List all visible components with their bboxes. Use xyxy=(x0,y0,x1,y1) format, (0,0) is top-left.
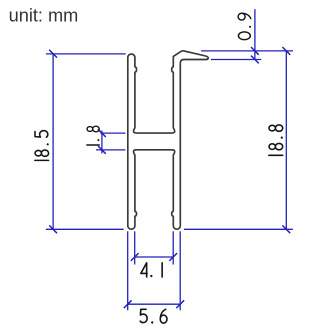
dimension 18.5 extension line top xyxy=(46,53,126,55)
dimension 0.9 dimension line xyxy=(254,9,256,59)
dimension 0.9 lower extension line xyxy=(211,59,261,61)
dim text 18.5 xyxy=(35,159,49,161)
tick 18.5 bottom xyxy=(49,225,57,233)
dimension 1.8 upper extension line xyxy=(100,132,125,134)
dim text 4.1 xyxy=(141,263,147,277)
shared bottom extension line right part (18.8) xyxy=(184,228,293,230)
dimension 5.6 dimension line xyxy=(128,303,181,305)
dimension 4.1 right extension line xyxy=(172,231,174,264)
dim text 5.6 xyxy=(140,309,147,322)
tick 0.9 bottom xyxy=(251,56,259,64)
dimension 18.5 dimension line xyxy=(52,54,54,229)
dimension 18.8 dimension line xyxy=(285,51,287,229)
tick 4.1 left xyxy=(131,253,139,261)
tick 1.8 bottom xyxy=(98,146,106,154)
dimension 1.8 dimension line xyxy=(101,131,103,154)
dimension 1.8 lower extension line xyxy=(96,149,125,151)
dimension 5.6 left extension line xyxy=(127,231,129,310)
tick 0.9 top xyxy=(251,47,259,55)
tick 18.8 top xyxy=(282,47,290,55)
dim text 1.8 xyxy=(87,144,99,146)
dim text 18.8 xyxy=(269,154,283,156)
tick 5.6 left xyxy=(124,300,132,308)
shared top extension line (0.9 / 18.8) xyxy=(201,50,293,52)
tick 1.8 top xyxy=(98,129,106,137)
tick 4.1 right xyxy=(169,253,177,261)
dimension 4.1 dimension line xyxy=(135,256,174,258)
tick 18.5 top xyxy=(49,50,57,58)
dimension 5.6 right extension line xyxy=(179,231,181,310)
tick 18.8 bottom xyxy=(282,225,290,233)
extrusion profile outline xyxy=(128,51,208,229)
dim text 0.9 xyxy=(238,32,250,40)
dimension 4.1 left extension line xyxy=(134,231,136,264)
shared bottom extension line left part (18.5) xyxy=(46,228,124,230)
svg-text:unit: mm: unit: mm xyxy=(9,6,79,26)
tick 5.6 right xyxy=(176,300,184,308)
